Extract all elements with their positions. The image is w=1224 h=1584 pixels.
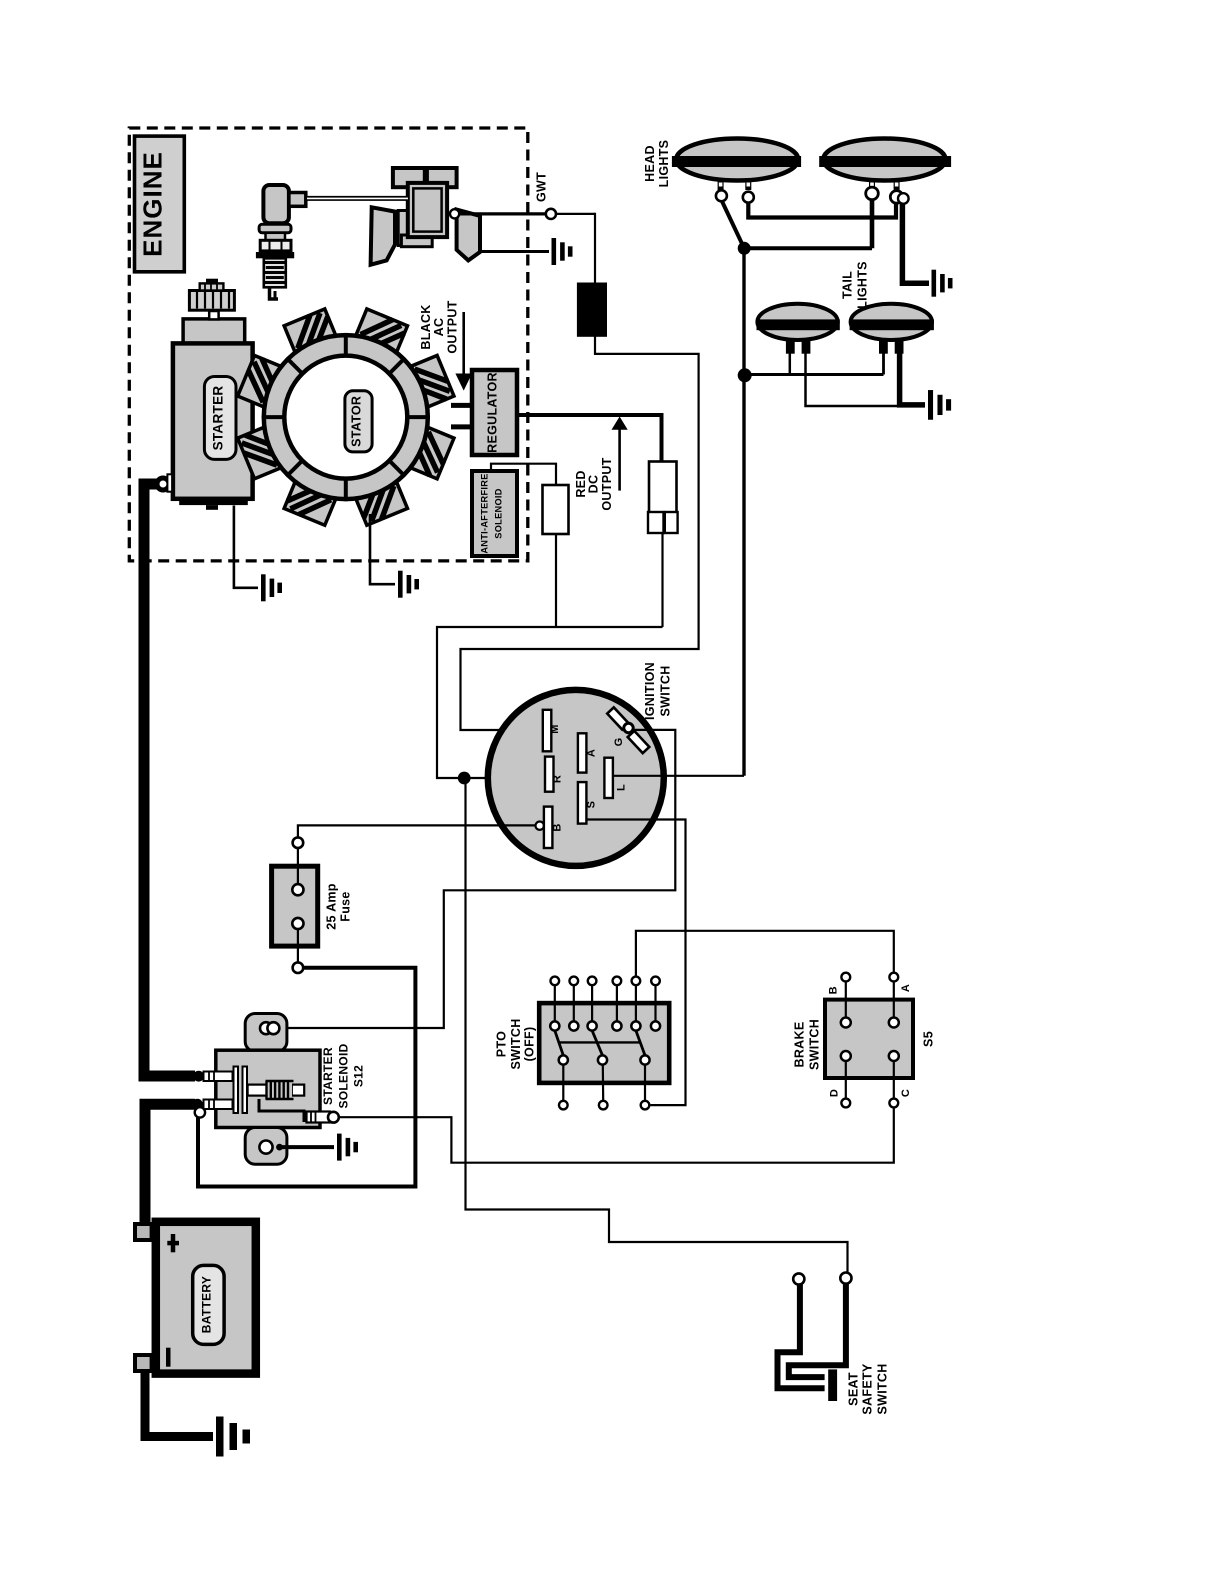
svg-text:Fuse: Fuse — [339, 891, 353, 921]
svg-text:B: B — [828, 986, 840, 994]
svg-text:LIGHTS: LIGHTS — [657, 140, 671, 188]
svg-text:ANTI-AFTERFIRE: ANTI-AFTERFIRE — [480, 473, 490, 553]
svg-text:BATTERY: BATTERY — [200, 1276, 214, 1333]
svg-text:TAIL: TAIL — [841, 271, 855, 299]
svg-text:SWITCH: SWITCH — [808, 1019, 822, 1070]
svg-text:L: L — [616, 784, 628, 791]
svg-text:SEAT: SEAT — [847, 1372, 861, 1406]
svg-text:PTO: PTO — [495, 1031, 509, 1057]
svg-text:IGNITION: IGNITION — [643, 662, 657, 720]
svg-text:C: C — [900, 1089, 912, 1097]
svg-text:S12: S12 — [352, 1065, 366, 1087]
svg-text:SAFETY: SAFETY — [861, 1363, 875, 1414]
svg-text:S: S — [586, 801, 598, 809]
svg-text:BRAKE: BRAKE — [793, 1022, 807, 1068]
svg-text:SOLENOID: SOLENOID — [337, 1043, 351, 1108]
svg-text:A: A — [586, 749, 598, 757]
svg-text:S5: S5 — [922, 1031, 936, 1047]
svg-text:OUTPUT: OUTPUT — [446, 300, 460, 353]
svg-text:D: D — [829, 1089, 841, 1097]
svg-text:BLACK: BLACK — [419, 304, 433, 349]
svg-text:REGULATOR: REGULATOR — [486, 372, 500, 453]
svg-text:SWITCH: SWITCH — [659, 665, 673, 716]
svg-text:HEAD: HEAD — [643, 145, 657, 182]
svg-text:R: R — [552, 775, 564, 783]
svg-text:M: M — [549, 724, 561, 733]
svg-text:GWT: GWT — [535, 172, 549, 202]
svg-text:OUTPUT: OUTPUT — [600, 457, 614, 510]
svg-text:STATOR: STATOR — [350, 396, 364, 447]
svg-text:DC: DC — [587, 475, 601, 494]
svg-text:SOLENOID: SOLENOID — [494, 488, 504, 538]
svg-text:A: A — [900, 984, 912, 992]
svg-text:G: G — [613, 738, 625, 747]
svg-text:AC: AC — [432, 318, 446, 337]
svg-text:(OFF): (OFF) — [523, 1027, 537, 1062]
svg-text:STARTER: STARTER — [211, 386, 226, 451]
svg-text:SWITCH: SWITCH — [876, 1363, 890, 1414]
svg-text:LIGHTS: LIGHTS — [856, 261, 870, 309]
svg-text:STARTER: STARTER — [321, 1047, 335, 1105]
svg-text:ENGINE: ENGINE — [138, 151, 168, 257]
svg-text:25 Amp: 25 Amp — [325, 883, 339, 930]
svg-text:B: B — [552, 823, 564, 831]
svg-text:SWITCH: SWITCH — [509, 1018, 523, 1069]
